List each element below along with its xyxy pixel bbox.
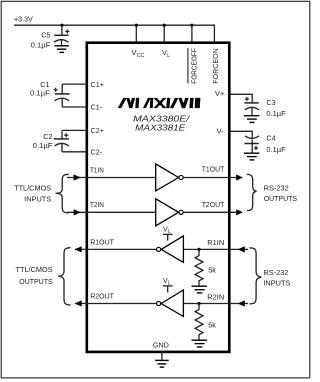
junction C5: [60, 24, 63, 27]
resistor 5k (R2IN): [195, 304, 203, 341]
svg-text:FORCEON: FORCEON: [211, 48, 220, 84]
arrow into T1IN: [74, 174, 81, 180]
op-amp buffer T1: [156, 164, 179, 191]
svg-text:GND: GND: [153, 340, 169, 349]
svg-text:OUTPUTS: OUTPUTS: [264, 194, 298, 203]
IC box U1 MAX3380E: [87, 43, 230, 352]
ground C4: [244, 153, 259, 160]
wire R1IN: [183, 248, 248, 250]
svg-text:CC: CC: [137, 53, 145, 59]
brace RS-232 inputs: [250, 248, 262, 304]
arrow into R2IN: [238, 300, 245, 306]
svg-text:INPUTS: INPUTS: [24, 195, 51, 204]
svg-text:R1IN: R1IN: [207, 238, 224, 247]
svg-text:0.1µF: 0.1µF: [266, 145, 286, 154]
brace TTL/CMOS inputs: [56, 174, 69, 213]
junction VL: [163, 24, 166, 27]
svg-text:C3: C3: [266, 98, 275, 107]
wire R2OUT: [75, 303, 156, 305]
svg-text:C2-: C2-: [91, 147, 103, 156]
wire VCC stub: [135, 25, 137, 43]
svg-text:C2: C2: [43, 132, 52, 141]
wire VL stub: [163, 25, 165, 43]
svg-text:C4: C4: [266, 133, 275, 142]
svg-text:0.1µF: 0.1µF: [33, 141, 53, 150]
arrow out T1OUT: [236, 174, 243, 180]
svg-text:R1OUT: R1OUT: [90, 237, 114, 246]
capacitor C1 0.1uF: [54, 84, 87, 107]
capacitor C4 0.1uF: [229, 131, 259, 153]
wire FORCEOFF stub: [191, 25, 193, 43]
ground 5k R2: [192, 340, 207, 347]
capacitor C5 0.1uF: [54, 25, 70, 46]
junction R1IN: [197, 248, 200, 251]
wire R1OUT: [75, 248, 156, 250]
svg-text:MAX3380E/: MAX3380E/: [133, 115, 190, 124]
svg-text:V-: V-: [217, 126, 225, 135]
svg-text:C1+: C1+: [91, 80, 104, 89]
wire R2IN: [183, 303, 248, 305]
svg-text:R2OUT: R2OUT: [90, 291, 114, 300]
svg-text:T2OUT: T2OUT: [202, 200, 225, 209]
wire GND stub: [161, 352, 163, 360]
svg-text:5k: 5k: [208, 266, 216, 275]
wire T2OUT: [184, 211, 239, 213]
arrow out R1OUT: [75, 246, 82, 252]
op-amp receiver R1: [157, 247, 161, 251]
ground GND: [155, 360, 169, 367]
svg-text:V+: V+: [215, 89, 224, 98]
svg-text:MAX3381E: MAX3381E: [135, 123, 186, 132]
svg-text:RS-232: RS-232: [263, 268, 288, 277]
arrow out T2OUT: [236, 209, 243, 215]
op-amp buffer T2: [156, 199, 179, 226]
capacitor C3 0.1uF: [229, 94, 259, 115]
wire T2IN: [67, 211, 156, 213]
junction R2IN: [197, 302, 200, 305]
arrow into T2IN: [74, 209, 81, 215]
svg-text:T2IN: T2IN: [90, 200, 104, 209]
svg-text:0.1µF: 0.1µF: [30, 88, 50, 97]
capacitor C2 0.1uF: [54, 130, 87, 151]
wire T1IN: [67, 177, 156, 179]
junction FORCEOFF: [190, 24, 193, 27]
svg-text:R2IN: R2IN: [207, 293, 224, 302]
ground C3: [244, 116, 259, 123]
arrow out R2OUT: [75, 300, 82, 306]
svg-text:RS-232: RS-232: [264, 184, 289, 193]
junction VCC: [135, 24, 138, 27]
svg-text:L: L: [167, 53, 170, 59]
svg-text:C5: C5: [41, 31, 50, 40]
svg-text:TTL/CMOS: TTL/CMOS: [14, 184, 51, 193]
resistor 5k (R1IN): [195, 249, 203, 286]
svg-text:0.1µF: 0.1µF: [31, 40, 51, 49]
svg-text:+3.3V: +3.3V: [14, 15, 33, 24]
svg-text:C1-: C1-: [91, 102, 103, 111]
op-amp receiver R2: [157, 301, 161, 305]
svg-text:OUTPUTS: OUTPUTS: [19, 277, 52, 286]
svg-text:5k: 5k: [208, 321, 216, 330]
svg-text:FORCEOFF: FORCEOFF: [189, 48, 198, 84]
wire T1OUT: [184, 177, 239, 179]
ground 5k R1: [192, 286, 207, 293]
svg-text:C2+: C2+: [91, 126, 104, 135]
brace RS-232 outputs: [247, 174, 257, 210]
svg-text:0.1µF: 0.1µF: [266, 109, 286, 118]
brace TTL/CMOS outputs: [58, 248, 70, 305]
svg-text:TTL/CMOS: TTL/CMOS: [16, 265, 53, 274]
ground C5: [55, 46, 69, 53]
arrow into R1IN: [238, 246, 245, 252]
svg-text:T1OUT: T1OUT: [202, 165, 225, 174]
wire +3.3V rail: [14, 25, 214, 43]
MAXIM logo: [118, 98, 200, 108]
svg-text:INPUTS: INPUTS: [263, 279, 290, 288]
svg-text:T1IN: T1IN: [90, 165, 104, 174]
